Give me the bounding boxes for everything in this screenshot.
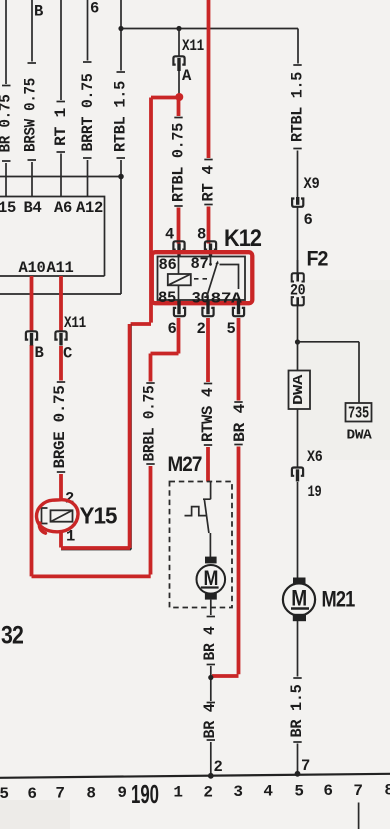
svg-text:C: C [63,345,72,363]
svg-text:BRBL 0.75: BRBL 0.75 [141,386,159,462]
wire red over bottom horizontal [61,546,130,550]
relay 87a lead [220,265,239,290]
bus wire joining top wires [0,176,121,178]
top horizontal wire [121,28,298,30]
svg-text:5: 5 [0,785,9,803]
node junction X11-A [177,94,181,98]
svg-text:86: 86 [159,256,177,274]
svg-text:RTBL 1.5: RTBL 1.5 [289,72,307,142]
svg-text:9: 9 [117,784,126,802]
svg-text:5: 5 [294,783,303,801]
wire black under red, vertical x131 [130,324,132,550]
node junction M21-bus [295,771,301,777]
wire RTWS 4 (relay pin 2 to M27) [199,318,217,482]
wire 2 BRSW 0.75 [22,0,44,197]
svg-text:7: 7 [301,757,310,775]
component 735 DWA box [346,403,373,444]
wire right main RTBL 1.5 [289,29,307,198]
motor M21 [283,578,355,622]
relay contact arm [206,263,217,298]
svg-text:5: 5 [226,320,235,338]
pin 4 connector bracket [173,241,184,249]
control unit box [0,197,105,277]
component M27 dashed box [170,482,233,608]
svg-text:BR 1.5: BR 1.5 [288,685,306,738]
wire BR 4 (M27 to junction) [201,600,219,701]
svg-text:6: 6 [27,785,36,803]
wire BR 1.5 (M21 to ground bus) [288,621,306,774]
wire 4 BRRT 0.75 [79,0,99,197]
wire branch to 735 [298,342,360,403]
svg-text:8: 8 [197,226,206,244]
svg-text:DWA: DWA [291,374,307,405]
svg-text:6: 6 [304,211,313,229]
svg-text:A11: A11 [46,259,73,277]
svg-text:RT 4: RT 4 [199,166,217,202]
svg-text:X9: X9 [304,175,320,193]
pin 6 bracket [177,301,180,315]
svg-text:7: 7 [55,785,64,803]
wire Y15 pin1 down [59,532,63,548]
svg-text:M21: M21 [322,587,356,612]
svg-text:X6: X6 [307,448,323,466]
relay coil [168,257,191,301]
connector X11 pins B C [26,276,86,363]
svg-text:B: B [34,3,43,21]
component DWA inline box [289,371,311,410]
junction dot [118,26,123,31]
wire black bottom horizontal to Y15 [61,549,131,551]
wire BRBL 0.75 (relay pin 6 to X11 B) [32,318,179,576]
svg-text:32: 32 [1,622,23,650]
svg-text:7: 7 [353,782,362,800]
node junction DWA branch [295,339,300,344]
svg-text:8: 8 [86,785,95,803]
node junction BR4 [208,675,213,680]
svg-text:3: 3 [233,783,242,801]
svg-text:BRSW 0.75: BRSW 0.75 [22,78,40,152]
svg-text:K12: K12 [224,225,262,252]
svg-text:2: 2 [196,320,205,338]
wire wrap-around to left [0,293,121,295]
svg-text:BR 4: BR 4 [201,704,219,739]
pin 2 bracket [206,301,209,315]
svg-text:190: 190 [131,779,159,809]
svg-text:4: 4 [165,226,174,244]
svg-text:RTBL 0.75: RTBL 0.75 [169,123,187,202]
wire red over x131 [128,324,132,548]
svg-text:2: 2 [203,784,212,802]
svg-text:M27: M27 [168,453,202,476]
junction dot [118,174,124,180]
wire RT 4 (from top to relay pin 8) [199,0,217,244]
fuse F2 [290,248,328,342]
pin 8 connector bracket [205,241,216,249]
svg-text:BR 0.75: BR 0.75 [0,95,15,153]
wire RTBL 0.75 (node to relay pin 4) [169,98,187,244]
connector X11 pin A [173,29,204,95]
svg-text:A: A [182,67,192,85]
svg-text:DWA: DWA [347,429,373,444]
wire stub bottom right [358,803,360,829]
wire DWA to X6 [297,409,299,467]
wire red loop from node to Y15 (goes left and down) [131,98,180,325]
svg-text:F2: F2 [307,248,328,271]
wire 5 RTBL 1.5 [111,0,129,294]
relay K12 red highlight box [152,252,253,303]
svg-text:85: 85 [158,289,176,307]
svg-text:6: 6 [90,0,99,18]
svg-text:Y15: Y15 [80,503,118,529]
svg-text:4: 4 [263,783,273,801]
svg-text:BRGE 0.75: BRGE 0.75 [51,386,69,469]
wire BR 4 (junction to ground bus) [201,703,219,776]
svg-text:A12: A12 [76,199,103,217]
svg-text:RTWS 4: RTWS 4 [199,388,217,442]
svg-text:M: M [291,586,307,611]
relay K12 box [158,257,246,301]
svg-text:15: 15 [0,199,16,217]
wire 3 RT 1 [52,0,70,197]
svg-text:19: 19 [308,483,322,501]
svg-text:2: 2 [214,758,223,776]
wire BRGE 0.75 (X11 C to Y15) [51,346,69,501]
connector X9 [292,175,319,273]
svg-text:A10: A10 [18,259,45,277]
svg-text:8: 8 [384,782,390,800]
svg-text:BR 4: BR 4 [231,404,249,442]
wire BR 4 (relay pin 5 down) [212,318,249,676]
junction dot [176,26,181,31]
relay contact (87 lead) [210,257,212,264]
red highlight circle on Y15 [37,500,78,533]
pin 5 bracket [237,301,240,315]
M27 motor [197,533,226,600]
connector X6 [292,448,323,578]
svg-text:6: 6 [323,782,332,800]
svg-text:RT 1: RT 1 [52,108,70,146]
svg-text:B: B [35,344,44,362]
node junction BR4-bus [208,773,214,779]
svg-text:735: 735 [348,405,369,424]
svg-text:BR 4: BR 4 [201,627,219,661]
svg-text:X11: X11 [182,37,204,55]
svg-text:RTBL 1.5: RTBL 1.5 [111,81,129,152]
svg-text:B4: B4 [23,199,41,217]
svg-text:6: 6 [167,320,176,338]
wire to DWA inline box [297,342,299,371]
svg-text:1: 1 [173,784,182,802]
ground bus bottom [0,774,390,778]
svg-text:A6: A6 [54,199,72,217]
svg-text:X11: X11 [64,314,86,332]
wire 1 BR 0.75 [0,0,15,197]
M27 switch [185,482,211,534]
actuation dashes [194,278,207,280]
svg-text:87: 87 [191,255,209,273]
svg-text:BRRT 0.75: BRRT 0.75 [79,74,97,152]
solenoid valve Y15 [42,490,118,546]
